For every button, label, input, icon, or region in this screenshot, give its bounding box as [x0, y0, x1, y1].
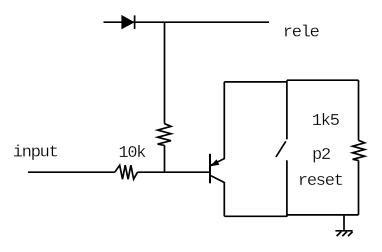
svg-text:p2: p2: [312, 146, 330, 165]
svg-text:input: input: [13, 143, 58, 162]
svg-text:1k5: 1k5: [312, 112, 340, 131]
svg-text:10k: 10k: [118, 144, 146, 163]
svg-text:reset: reset: [298, 172, 343, 191]
svg-text:rele: rele: [283, 24, 320, 43]
